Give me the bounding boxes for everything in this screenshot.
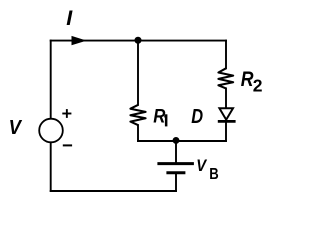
svg-text:I: I: [66, 6, 73, 30]
wire battery top (node B to plate): [175, 141, 177, 162]
svg-text:R: R: [241, 67, 254, 91]
voltage source V (circle symbol): [39, 119, 63, 143]
svg-text:B: B: [209, 166, 218, 183]
wire battery bottom (plate to bottom wire): [175, 174, 177, 191]
wire left lower (source bottom to bottom wire): [50, 142, 52, 191]
svg-text:2: 2: [253, 75, 263, 95]
resistor R1 (zigzag): [130, 105, 145, 125]
wire top horizontal: [51, 40, 226, 42]
node B (bottom junction dot): [173, 137, 180, 144]
node A (top junction dot): [134, 37, 141, 44]
wire R2 to diode: [225, 88, 227, 108]
svg-text:D: D: [191, 105, 203, 128]
plus sign of source: [62, 109, 71, 118]
svg-text:R: R: [153, 105, 165, 126]
diode D cathode bar: [218, 120, 236, 123]
wire bottom horizontal: [51, 190, 176, 192]
svg-text:V: V: [9, 116, 23, 139]
wire diode to mid wire: [225, 123, 227, 141]
wire right upper (top wire to R2): [225, 41, 227, 69]
minus sign of source: [63, 144, 72, 146]
current arrow I: [72, 36, 87, 45]
label R1 subscript 1: [164, 114, 168, 126]
battery VB top plate: [157, 162, 194, 165]
wire left upper (source top to top wire): [50, 41, 52, 120]
battery VB bottom plate: [166, 171, 185, 174]
wire middle branch lower (R1 to mid wire): [137, 125, 139, 141]
svg-text:V: V: [196, 157, 207, 175]
resistor R2 (zigzag): [218, 68, 233, 88]
diode D (triangle): [219, 108, 233, 119]
wire middle horizontal (R1 bottom to diode bottom): [138, 140, 226, 142]
wire middle branch upper (node A to R1): [137, 41, 139, 105]
